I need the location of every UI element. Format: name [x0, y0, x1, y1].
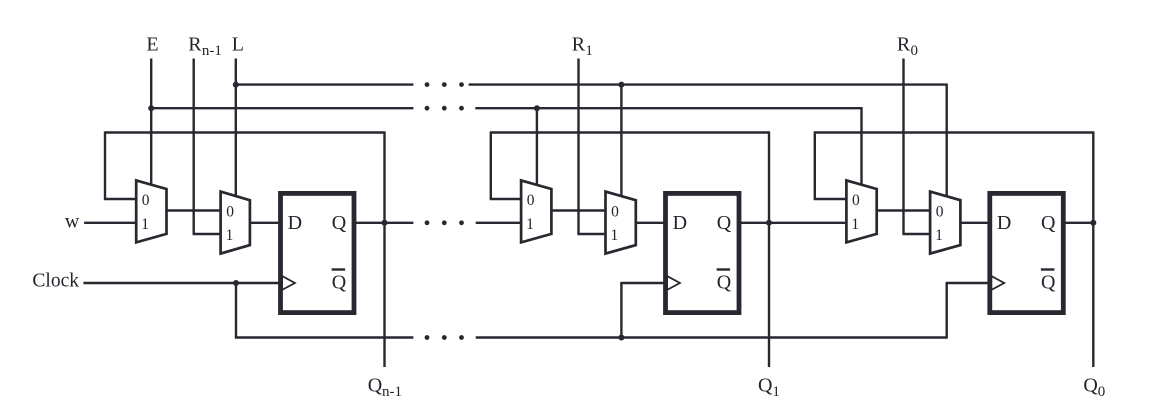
svg-text:1: 1 — [526, 216, 534, 233]
wire feedback to mux1 input 0 stage1 — [104, 198, 138, 200]
svg-text:L: L — [232, 34, 244, 56]
svg-text:D: D — [673, 212, 687, 234]
mux U6 stage3 L-mux — [930, 192, 960, 254]
ellipsis dots L bus — [425, 82, 464, 87]
wire mux1 output stage1 — [167, 209, 222, 211]
wire R n-1 vertical — [192, 59, 194, 235]
label R 0 — [897, 34, 918, 60]
wire L bus segment A — [236, 83, 414, 85]
label Q 1 — [758, 375, 780, 400]
wire Clock input — [83, 282, 281, 284]
wire mux1 output stage3 — [877, 209, 932, 211]
mux U1 stage1 E-mux — [136, 180, 166, 242]
svg-text:D: D — [288, 212, 302, 234]
wire Clock into FF stage2 — [620, 282, 666, 284]
wire E vertical stage1 — [150, 59, 152, 188]
ellipsis dots E bus — [425, 106, 464, 111]
svg-text:Q: Q — [717, 271, 732, 293]
svg-text:Q: Q — [758, 375, 773, 397]
svg-text:R: R — [572, 34, 586, 56]
junction Q output stage2 — [766, 220, 772, 226]
label R n-1 — [188, 34, 222, 60]
label Q n-1 — [368, 375, 402, 400]
svg-text:1: 1 — [226, 227, 234, 244]
wire R 0 to mux2 input 1 — [902, 233, 931, 235]
svg-text:0: 0 — [936, 203, 944, 220]
wire Clock into FF stage3 — [946, 282, 991, 284]
wire E branch stage2 — [536, 108, 538, 187]
svg-text:1: 1 — [851, 216, 859, 233]
mux U4 stage2 L-mux — [606, 192, 636, 254]
wire feedback left vertical stage2 — [490, 131, 492, 199]
svg-text:1: 1 — [585, 43, 593, 59]
junction Clock stage1 — [233, 280, 239, 286]
svg-text:R: R — [897, 34, 911, 56]
svg-text:1: 1 — [611, 227, 619, 244]
junction L bus stage2 — [618, 82, 624, 88]
wire feedback left vertical stage3 — [814, 131, 816, 199]
svg-text:1: 1 — [141, 216, 149, 233]
svg-text:E: E — [146, 34, 158, 56]
wire Q output stage3 — [1064, 222, 1094, 224]
wire R 1 vertical — [577, 59, 579, 235]
wire E bus segment B — [475, 107, 861, 109]
svg-text:R: R — [188, 34, 202, 56]
label R 1 — [572, 34, 593, 60]
svg-text:n-1: n-1 — [202, 43, 222, 59]
svg-text:Q: Q — [1041, 212, 1056, 234]
junction E bus stage1 — [148, 105, 154, 111]
wire feedback to mux1 input 0 stage2 — [490, 198, 523, 200]
wire Clock branch down stage1 — [235, 283, 237, 338]
wire E branch stage3 — [860, 107, 862, 187]
ellipsis dots Clock bus — [425, 335, 464, 340]
mux U2 stage1 L-mux — [221, 192, 250, 254]
svg-text:Q: Q — [717, 212, 732, 234]
junction Q output stage1 — [382, 220, 388, 226]
wire L branch stage2 — [620, 85, 622, 198]
wire feedback to mux1 input 0 stage3 — [814, 198, 848, 200]
mux U3 stage2 E-mux — [521, 180, 551, 242]
flip-flop FF3 stage3 — [990, 193, 1064, 312]
svg-text:Q: Q — [1041, 271, 1056, 293]
wire mux2 output to D stage3 — [960, 222, 990, 224]
wire Clock bus segment A — [235, 336, 414, 338]
wire L bus segment B — [469, 83, 947, 85]
wire R n-1 to mux2 input 1 — [193, 233, 222, 235]
wire feedback left vertical stage1 — [104, 131, 106, 199]
wire feedback top stage1 — [105, 131, 385, 133]
svg-text:0: 0 — [611, 203, 619, 220]
wire R 0 vertical — [902, 59, 904, 235]
wire Q drop stage2 — [768, 131, 770, 367]
wire shift input stage2 — [476, 222, 523, 224]
wire mux1 output stage2 — [551, 209, 606, 211]
wire mux2 output to D stage1 — [250, 222, 281, 224]
wire L vertical stage1 — [235, 59, 237, 198]
svg-text:w: w — [65, 211, 80, 233]
svg-text:Q: Q — [368, 375, 383, 397]
mux U5 stage3 E-mux — [846, 180, 876, 242]
wire Q output stage1 — [354, 222, 413, 224]
junction E bus stage2 — [534, 105, 540, 111]
svg-text:n-1: n-1 — [382, 384, 402, 400]
svg-text:Q: Q — [1083, 375, 1098, 397]
junction Clock bus stage2 — [618, 335, 624, 341]
svg-text:Clock: Clock — [32, 271, 79, 292]
wire Q drop stage3 — [1092, 131, 1094, 367]
svg-text:0: 0 — [527, 192, 535, 209]
wire Clock branch up stage3 — [946, 283, 948, 339]
wire R 1 to mux2 input 1 — [577, 233, 606, 235]
svg-text:1: 1 — [935, 227, 943, 244]
label Q 0 — [1083, 375, 1105, 400]
wire feedback top stage3 — [815, 131, 1094, 133]
wire Q output stage2 to stage3 — [740, 222, 848, 224]
junction L bus stage1 — [233, 82, 239, 88]
wire w input — [84, 222, 137, 224]
svg-text:0: 0 — [911, 43, 919, 59]
svg-text:0: 0 — [226, 203, 234, 220]
wire Clock branch up stage2 — [620, 283, 622, 338]
svg-text:D: D — [997, 212, 1011, 234]
wire E bus segment A — [151, 107, 413, 109]
svg-text:0: 0 — [1098, 384, 1106, 400]
wire feedback top stage2 — [491, 131, 769, 133]
junction Q output stage3 — [1090, 220, 1096, 226]
flip-flop FF2 stage2 — [666, 193, 740, 312]
svg-text:0: 0 — [142, 192, 150, 209]
wire Q drop stage1 — [383, 131, 385, 367]
wire L branch stage3 — [946, 84, 948, 198]
svg-text:Q: Q — [332, 271, 347, 293]
wire mux2 output to D stage2 — [636, 222, 666, 224]
svg-text:1: 1 — [772, 384, 780, 400]
wire Clock bus segment B — [476, 336, 947, 338]
flip-flop FF1 stage1 — [281, 193, 355, 312]
svg-text:Q: Q — [332, 212, 347, 234]
ellipsis dots Q line — [425, 220, 464, 225]
svg-text:0: 0 — [852, 192, 860, 209]
